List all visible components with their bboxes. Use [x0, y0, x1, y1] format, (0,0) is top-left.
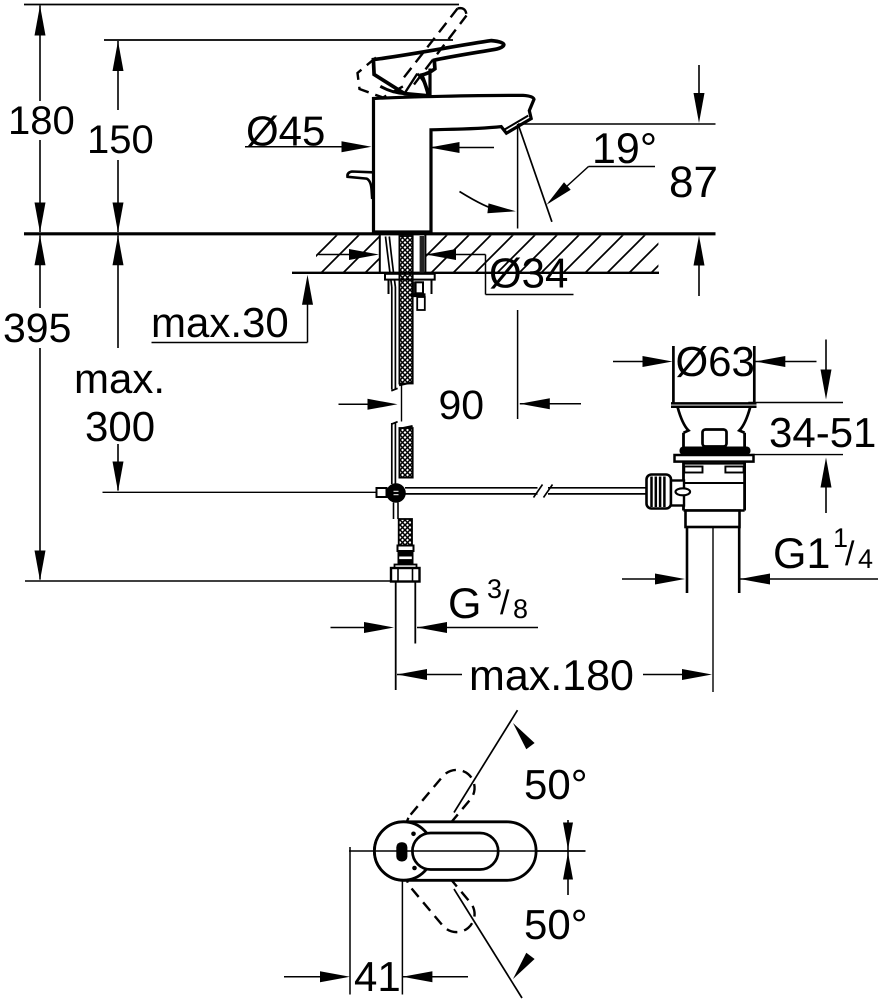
svg-text:max.180: max.180: [469, 652, 634, 700]
svg-text:G: G: [448, 580, 481, 628]
svg-text:8: 8: [513, 594, 528, 624]
svg-text:87: 87: [669, 158, 718, 207]
svg-text:Ø63: Ø63: [676, 338, 755, 385]
svg-text:180: 180: [8, 99, 75, 143]
svg-text:Ø34: Ø34: [489, 250, 568, 297]
svg-text:150: 150: [87, 118, 154, 162]
svg-text:41: 41: [354, 953, 401, 1000]
svg-text:/: /: [845, 535, 855, 573]
svg-text:/: /: [500, 584, 510, 622]
svg-text:50°: 50°: [524, 901, 588, 948]
svg-text:50°: 50°: [524, 761, 588, 808]
svg-text:max.: max.: [74, 355, 165, 402]
svg-text:4: 4: [858, 544, 873, 574]
svg-text:395: 395: [3, 305, 71, 351]
svg-text:G1: G1: [773, 530, 830, 578]
svg-text:34-51: 34-51: [769, 409, 876, 456]
svg-text:max.30: max.30: [151, 299, 289, 346]
svg-text:90: 90: [439, 382, 485, 428]
svg-text:300: 300: [85, 403, 155, 450]
